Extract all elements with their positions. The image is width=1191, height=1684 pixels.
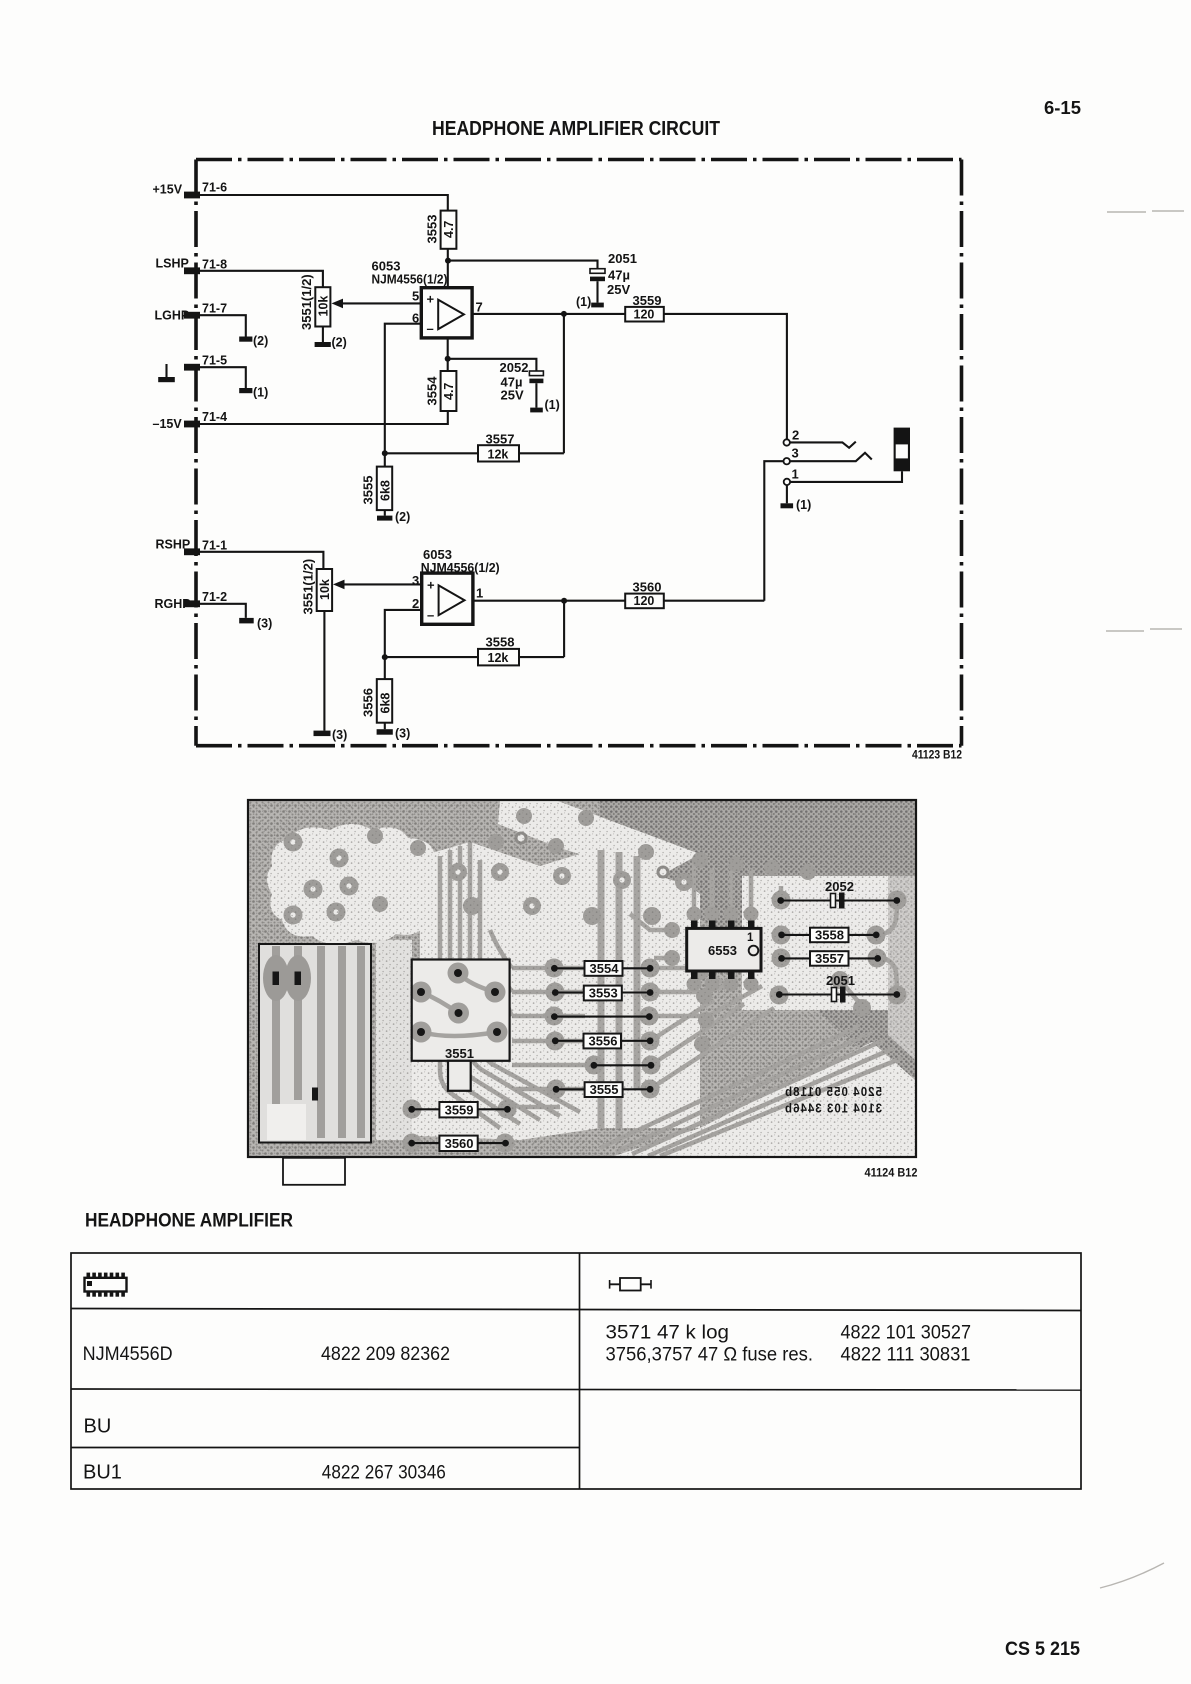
schematic dash-dot border frame	[196, 160, 962, 746]
resistor R3560 120	[625, 580, 664, 609]
wire R3551a to ground (2)	[322, 327, 324, 343]
svg-text:3559: 3559	[445, 1103, 474, 1118]
ring pads with holes top	[516, 833, 668, 877]
op-amp U1b 6053 NJM4556(1/2)	[412, 547, 500, 624]
svg-text:(1): (1)	[545, 398, 560, 412]
small white centers in some pads	[290, 839, 686, 917]
pin 71-2 (RGHP)	[155, 590, 228, 611]
wire node to C2052	[448, 359, 537, 371]
svg-text:12k: 12k	[488, 448, 509, 462]
callout capacitor 2051 on PCB	[776, 973, 900, 1003]
svg-text:2: 2	[792, 428, 799, 443]
junction on output	[561, 311, 567, 317]
resistor R3555 6k8	[361, 453, 411, 524]
callout 3553	[552, 986, 654, 1001]
svg-text:2: 2	[412, 596, 419, 611]
svg-text:3558: 3558	[486, 635, 515, 650]
op-amp U1a 6053 NJM4556(1/2)	[372, 259, 483, 338]
svg-text:+15V: +15V	[153, 183, 183, 197]
resistor icon in table header	[610, 1278, 651, 1291]
white middle bay	[395, 842, 700, 1140]
feedback wire down from output	[563, 314, 565, 453]
wire R3559 to jack contact 2	[664, 314, 787, 439]
node below op-amp	[445, 356, 451, 362]
connector tab below board	[283, 1158, 345, 1185]
svg-text:(3): (3)	[395, 727, 410, 741]
svg-text:1: 1	[747, 932, 754, 944]
potentiometer R3551 (1/2) 10k lower	[301, 559, 333, 615]
connector block region	[259, 944, 371, 1143]
svg-text:(2): (2)	[332, 336, 347, 350]
svg-text:HEADPHONE AMPLIFIER CIRCUIT: HEADPHONE AMPLIFIER CIRCUIT	[432, 118, 720, 140]
wire below op-amp to R3554	[447, 338, 449, 371]
wire R3558 right up	[519, 656, 564, 658]
svg-text:6-15: 6-15	[1044, 98, 1081, 118]
svg-text:3558: 3558	[815, 928, 844, 943]
svg-text:3756,3757 47 Ω fuse res.: 3756,3757 47 Ω fuse res.	[606, 1345, 814, 1366]
chassis ground symbol at left	[165, 364, 167, 377]
wire LGHP to ground (2)	[196, 315, 246, 336]
pin 71-7 (LGHP)	[155, 302, 228, 323]
svg-text:4822 101 30527: 4822 101 30527	[841, 1323, 972, 1344]
white right bay	[742, 876, 888, 1010]
PCB board outline	[248, 800, 916, 1157]
IC 6553 on PCB	[687, 921, 761, 980]
wiper arrow into R3551a	[341, 302, 421, 304]
potentiometer 3551 square region	[411, 960, 510, 1091]
wire R3551b to ground (3)	[323, 611, 325, 731]
svg-text:4822 111 30831: 4822 111 30831	[841, 1345, 971, 1366]
node junction below R3553	[445, 258, 451, 264]
svg-text:71-2: 71-2	[202, 590, 227, 604]
svg-text:3551: 3551	[445, 1046, 474, 1061]
svg-text:(3): (3)	[257, 617, 272, 631]
svg-text:NJM4556D: NJM4556D	[83, 1344, 173, 1365]
callout capacitor 2052 on PCB	[777, 879, 900, 909]
svg-text:3: 3	[792, 446, 799, 461]
wire R3557 right up to output	[519, 452, 564, 454]
svg-text:2052: 2052	[500, 360, 529, 375]
svg-text:–15V: –15V	[153, 417, 183, 431]
headphone jack plug body	[894, 428, 910, 472]
svg-text:10k: 10k	[318, 579, 332, 600]
svg-text:3554: 3554	[590, 961, 620, 976]
svg-text:1: 1	[792, 467, 799, 482]
svg-text:3560: 3560	[633, 580, 662, 595]
svg-text:3104 103 3446b: 3104 103 3446b	[784, 1102, 882, 1116]
speckle overlay on PCB	[248, 800, 916, 1157]
svg-text:3555: 3555	[590, 1082, 619, 1097]
callout 3555	[553, 1082, 654, 1097]
resistor R3558 12k	[478, 635, 519, 666]
wire R3560 right	[664, 600, 765, 602]
wire +15V rail to R3553	[196, 195, 448, 211]
svg-text:–: –	[427, 608, 434, 623]
svg-text:LSHP: LSHP	[156, 257, 189, 271]
capacitor C2051 47u 25V	[576, 251, 637, 309]
resistor R3559 120	[625, 293, 664, 322]
svg-text:71-6: 71-6	[202, 181, 227, 195]
svg-text:47µ: 47µ	[608, 268, 630, 283]
svg-text:71-8: 71-8	[202, 258, 227, 272]
mirrored silkscreen text on PCB	[784, 1085, 882, 1116]
wire R3553 to op-amp supply / node	[447, 249, 449, 288]
svg-text:3556: 3556	[361, 688, 376, 717]
svg-text:5: 5	[412, 289, 419, 304]
pin 71-1 (RSHP)	[156, 538, 228, 556]
wire -15V rail to R3554	[196, 411, 448, 424]
svg-text:(1): (1)	[576, 295, 591, 309]
callout 3556	[552, 1034, 654, 1049]
svg-text:71-7: 71-7	[202, 302, 227, 316]
darker copper top-right region	[600, 801, 915, 1075]
svg-text:4.7: 4.7	[442, 221, 456, 238]
svg-text:BU1: BU1	[83, 1462, 122, 1484]
pin 71-6 (+15V)	[153, 181, 228, 199]
svg-text:4.7: 4.7	[442, 383, 456, 400]
svg-text:BU: BU	[84, 1416, 112, 1438]
junction at feedback node b	[382, 654, 388, 660]
potentiometer R3551 (1/2) 10k upper	[299, 274, 331, 330]
plain callout line row	[551, 1013, 653, 1020]
svg-text:3551(1/2): 3551(1/2)	[301, 559, 316, 615]
white halo around 2052 callout	[770, 886, 880, 912]
resistor R3557 12k	[478, 432, 519, 462]
wire contact 3 to R3560	[764, 461, 783, 601]
gray traces: vertical bundle behind label column	[601, 850, 637, 1128]
callout 3554	[551, 961, 653, 976]
svg-text:HEADPHONE AMPLIFIER: HEADPHONE AMPLIFIER	[85, 1211, 293, 1232]
svg-text:10k: 10k	[317, 296, 331, 317]
svg-text:CS 5 215: CS 5 215	[1005, 1639, 1080, 1660]
pin 71-8 (LSHP)	[156, 257, 228, 275]
svg-text:25V: 25V	[501, 388, 524, 403]
svg-text:NJM4556(1/2): NJM4556(1/2)	[372, 272, 448, 287]
svg-text:12k: 12k	[488, 651, 509, 665]
svg-text:LGHP: LGHP	[155, 309, 190, 323]
wire output pin7	[472, 313, 625, 315]
svg-text:(2): (2)	[253, 334, 268, 348]
callout 3558	[778, 928, 879, 943]
svg-text:41123 B12: 41123 B12	[912, 750, 962, 762]
gray traces: diagonal bundle bottom-right	[600, 1026, 902, 1156]
svg-text:120: 120	[634, 594, 655, 608]
svg-text:6k8: 6k8	[379, 693, 393, 714]
white pool top-left with pads	[267, 824, 443, 944]
svg-text:3556: 3556	[589, 1034, 618, 1049]
wire pin6 down to feedback node	[385, 324, 422, 454]
callout 3557	[778, 951, 881, 966]
svg-text:4822 267 30346: 4822 267 30346	[322, 1463, 446, 1484]
svg-text:(1): (1)	[253, 386, 268, 400]
white strip between connector and middle bay	[376, 940, 412, 1140]
white bottom-right wedge	[614, 1042, 915, 1156]
svg-text:3555: 3555	[361, 476, 376, 505]
callout 3559	[408, 1102, 510, 1118]
svg-text:3559: 3559	[633, 293, 662, 308]
junction at feedback node	[382, 450, 388, 456]
ground (1) at 71-5	[239, 388, 252, 393]
pin 71-5 (chassis ground)	[184, 354, 227, 371]
wire output pin1	[473, 600, 625, 602]
ground (2) at LGHP	[239, 337, 252, 342]
svg-text:(3): (3)	[332, 728, 347, 742]
svg-text:3557: 3557	[815, 951, 844, 966]
wire 71-5 to ground (1)	[196, 367, 246, 388]
wire node to C2051	[448, 261, 598, 269]
svg-text:2052: 2052	[825, 879, 854, 894]
gray traces: label column to IC fan	[630, 860, 774, 1089]
PCB board interior: full stipple copper pour	[248, 800, 916, 1157]
callout 3560	[408, 1136, 509, 1152]
IC icon in table header	[85, 1273, 127, 1297]
svg-text:4822 209 82362: 4822 209 82362	[321, 1344, 450, 1365]
pin 71-4 (-15V)	[153, 410, 228, 431]
ground (1) under contact 1	[786, 485, 788, 503]
svg-text:5204 055 0118b: 5204 055 0118b	[784, 1085, 882, 1099]
svg-text:+: +	[427, 578, 435, 593]
resistor R3553 4.7	[425, 211, 457, 249]
svg-text:71-4: 71-4	[202, 410, 227, 424]
wire pin2 down to feedback node	[385, 610, 422, 657]
headphone jack contact 1	[784, 467, 902, 486]
parts table frame	[71, 1253, 1081, 1489]
svg-text:71-1: 71-1	[202, 539, 227, 553]
svg-text:3551(1/2): 3551(1/2)	[299, 274, 314, 330]
resistor R3556 6k8	[361, 657, 411, 740]
svg-text:RSHP: RSHP	[156, 538, 191, 552]
svg-text:RGHP: RGHP	[155, 597, 191, 611]
ground (3) at RGHP	[239, 618, 254, 624]
svg-text:3553: 3553	[425, 215, 440, 244]
faint scan artifacts	[1100, 211, 1184, 1588]
junction on output	[561, 598, 567, 604]
wire RGHP to ground (3)	[196, 604, 246, 618]
svg-text:2051: 2051	[826, 973, 855, 988]
svg-text:(1): (1)	[796, 498, 811, 512]
svg-text:6k8: 6k8	[379, 480, 393, 501]
svg-text:3553: 3553	[589, 986, 618, 1001]
svg-text:(2): (2)	[395, 510, 410, 524]
wire R3557 left to node	[385, 452, 478, 454]
svg-text:6553: 6553	[708, 943, 737, 958]
wire RSHP to R3551b	[196, 552, 323, 569]
svg-text:–: –	[427, 321, 434, 336]
svg-text:3554: 3554	[425, 376, 440, 406]
pads: callout rows	[403, 891, 907, 1153]
headphone jack contact 3	[784, 446, 872, 465]
capacitor C2052 47u 25V	[500, 360, 560, 412]
white wedge top-center	[498, 801, 700, 878]
gray traces: nested verticals left of 3551 square	[440, 842, 580, 1128]
svg-text:3560: 3560	[445, 1136, 474, 1151]
headphone jack contact 2	[784, 428, 856, 448]
wire LSHP to R3551a	[196, 271, 323, 287]
svg-text:41124 B12: 41124 B12	[865, 1168, 918, 1180]
plain callout line row 2	[591, 1062, 655, 1069]
svg-text:2051: 2051	[608, 251, 637, 266]
pads: top area scatter	[284, 808, 817, 925]
gray traces: horizontal bundle right of 3551 square	[490, 930, 590, 1107]
svg-text:3571 47 k log: 3571 47 k log	[606, 1323, 730, 1344]
gray traces: right bay connections	[781, 886, 897, 1006]
svg-text:71-5: 71-5	[202, 354, 227, 368]
svg-text:120: 120	[634, 308, 655, 322]
svg-text:3: 3	[412, 573, 419, 588]
svg-text:3557: 3557	[486, 432, 515, 447]
svg-text:+: +	[427, 292, 435, 307]
feedback wire down	[563, 601, 565, 657]
wire R3558 left to node	[385, 656, 478, 658]
svg-text:25V: 25V	[607, 282, 630, 297]
wiper arrow into R3551b	[342, 583, 422, 585]
svg-text:1: 1	[476, 586, 483, 601]
svg-text:7: 7	[476, 300, 483, 315]
resistor R3554 4.7	[425, 371, 457, 411]
